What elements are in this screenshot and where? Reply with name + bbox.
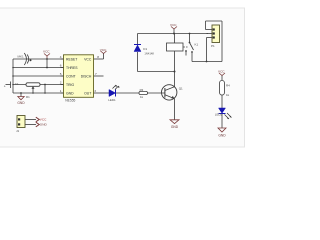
svg-text:4: 4 bbox=[60, 55, 62, 59]
svg-text:RESET: RESET bbox=[66, 57, 77, 61]
svg-text:THRES: THRES bbox=[66, 66, 78, 70]
svg-text:VCC: VCC bbox=[40, 117, 47, 121]
svg-text:5: 5 bbox=[60, 72, 62, 76]
svg-text:OUT: OUT bbox=[84, 91, 91, 95]
svg-text:GND: GND bbox=[171, 125, 179, 129]
svg-text:7: 7 bbox=[95, 72, 97, 76]
svg-text:3: 3 bbox=[94, 89, 96, 93]
svg-text:LED2: LED2 bbox=[215, 113, 223, 117]
svg-text:VCC: VCC bbox=[218, 70, 225, 74]
svg-text:1k: 1k bbox=[226, 93, 230, 97]
svg-text:GND: GND bbox=[17, 101, 25, 105]
svg-text:NE555: NE555 bbox=[65, 98, 75, 102]
svg-text:MK1: MK1 bbox=[18, 55, 25, 59]
svg-text:J1: J1 bbox=[16, 129, 20, 133]
svg-text:TRIG: TRIG bbox=[66, 83, 74, 87]
svg-text:LED1: LED1 bbox=[108, 98, 116, 102]
svg-text:+: + bbox=[4, 85, 6, 89]
svg-text:K1: K1 bbox=[195, 43, 199, 47]
svg-text:P1: P1 bbox=[211, 44, 215, 48]
svg-text:GND: GND bbox=[66, 91, 74, 95]
svg-text:VCC: VCC bbox=[43, 50, 50, 54]
svg-text:C1: C1 bbox=[15, 82, 19, 86]
svg-text:R4: R4 bbox=[226, 84, 230, 88]
svg-text:1N4148: 1N4148 bbox=[144, 52, 154, 56]
svg-text:DISCH: DISCH bbox=[81, 74, 92, 78]
svg-text:6: 6 bbox=[60, 64, 62, 68]
svg-text:2: 2 bbox=[60, 81, 62, 85]
svg-text:GND: GND bbox=[40, 122, 48, 126]
svg-text:D1: D1 bbox=[143, 47, 147, 51]
svg-text:GND: GND bbox=[218, 133, 226, 137]
svg-text:R1: R1 bbox=[26, 95, 30, 99]
svg-text:VCC: VCC bbox=[100, 48, 107, 52]
svg-text:VCC: VCC bbox=[84, 57, 92, 61]
svg-text:R3: R3 bbox=[140, 88, 144, 92]
svg-text:8: 8 bbox=[97, 55, 99, 59]
svg-text:Q1: Q1 bbox=[179, 86, 183, 90]
svg-text:CONT: CONT bbox=[66, 74, 76, 78]
svg-text:VCC: VCC bbox=[170, 23, 177, 27]
svg-text:1: 1 bbox=[60, 89, 62, 93]
